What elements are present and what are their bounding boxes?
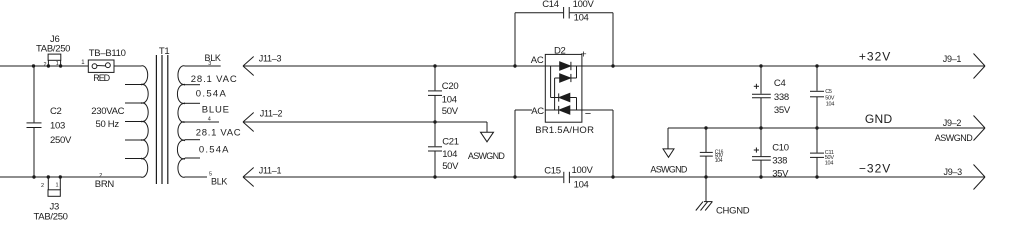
svg-text:100V: 100V xyxy=(573,0,595,10)
svg-text:35V: 35V xyxy=(774,105,791,116)
svg-text:C20: C20 xyxy=(442,81,459,92)
svg-text:1: 1 xyxy=(56,61,59,67)
svg-text:104: 104 xyxy=(574,12,589,23)
svg-text:28.1 VAC: 28.1 VAC xyxy=(191,74,238,85)
svg-text:J9–2: J9–2 xyxy=(943,118,962,128)
svg-text:TB–B110: TB–B110 xyxy=(89,48,126,59)
svg-text:BLK: BLK xyxy=(211,176,227,186)
svg-text:J11–1: J11–1 xyxy=(259,166,282,176)
svg-text:104: 104 xyxy=(442,94,457,105)
svg-text:2: 2 xyxy=(99,173,102,179)
svg-text:AC: AC xyxy=(531,106,544,117)
svg-text:BLK: BLK xyxy=(205,53,221,63)
svg-text:BLUE: BLUE xyxy=(202,104,230,115)
svg-text:28.1 VAC: 28.1 VAC xyxy=(196,128,242,139)
svg-text:3: 3 xyxy=(208,61,211,67)
svg-text:50 Hz: 50 Hz xyxy=(96,119,120,130)
svg-text:CHGND: CHGND xyxy=(716,205,750,216)
svg-text:104: 104 xyxy=(825,160,834,166)
svg-text:2: 2 xyxy=(41,183,44,189)
svg-text:D2: D2 xyxy=(554,45,566,56)
svg-text:4: 4 xyxy=(208,117,211,123)
svg-text:338: 338 xyxy=(772,155,787,166)
svg-text:+32V: +32V xyxy=(859,50,891,64)
svg-text:TAB/250: TAB/250 xyxy=(36,43,70,54)
svg-text:BRN: BRN xyxy=(95,179,115,190)
svg-text:+: + xyxy=(581,48,587,60)
svg-text:AC: AC xyxy=(531,55,544,66)
svg-text:J9–1: J9–1 xyxy=(943,54,962,64)
svg-text:2: 2 xyxy=(44,62,47,68)
svg-text:GND: GND xyxy=(865,112,893,126)
svg-text:35V: 35V xyxy=(772,169,789,180)
svg-text:0.54A: 0.54A xyxy=(196,88,227,99)
svg-text:BR1.5A/HOR: BR1.5A/HOR xyxy=(535,125,594,136)
svg-text:T1: T1 xyxy=(159,46,170,57)
svg-text:50V: 50V xyxy=(442,106,459,117)
svg-text:104: 104 xyxy=(826,101,835,107)
svg-text:C15: C15 xyxy=(544,166,561,177)
svg-text:230VAC: 230VAC xyxy=(91,106,124,117)
svg-text:0.54A: 0.54A xyxy=(199,145,230,156)
svg-text:J11–2: J11–2 xyxy=(260,109,283,119)
svg-text:250V: 250V xyxy=(50,135,72,146)
svg-text:100V: 100V xyxy=(572,165,594,176)
svg-text:−32V: −32V xyxy=(859,162,891,176)
svg-text:RED: RED xyxy=(93,73,110,83)
svg-text:104: 104 xyxy=(574,180,589,191)
svg-text:C4: C4 xyxy=(774,78,786,89)
svg-text:C5: C5 xyxy=(825,89,832,95)
svg-text:C10: C10 xyxy=(772,142,789,153)
svg-text:50V: 50V xyxy=(442,161,459,172)
svg-text:1: 1 xyxy=(56,183,59,189)
svg-text:−: − xyxy=(585,108,591,120)
svg-text:J11–3: J11–3 xyxy=(259,54,282,64)
svg-text:C2: C2 xyxy=(50,106,62,117)
svg-text:TAB/250: TAB/250 xyxy=(34,211,68,222)
svg-text:ASWGND: ASWGND xyxy=(650,165,688,175)
svg-text:J9–3: J9–3 xyxy=(944,167,963,177)
svg-text:103: 103 xyxy=(50,120,65,131)
svg-text:ASWGND: ASWGND xyxy=(935,133,974,143)
svg-text:ASWGND: ASWGND xyxy=(468,151,506,161)
svg-text:338: 338 xyxy=(774,92,789,103)
svg-text:C14: C14 xyxy=(542,0,559,10)
svg-text:C21: C21 xyxy=(442,136,459,147)
svg-text:104: 104 xyxy=(442,149,457,160)
svg-text:104: 104 xyxy=(715,158,723,164)
